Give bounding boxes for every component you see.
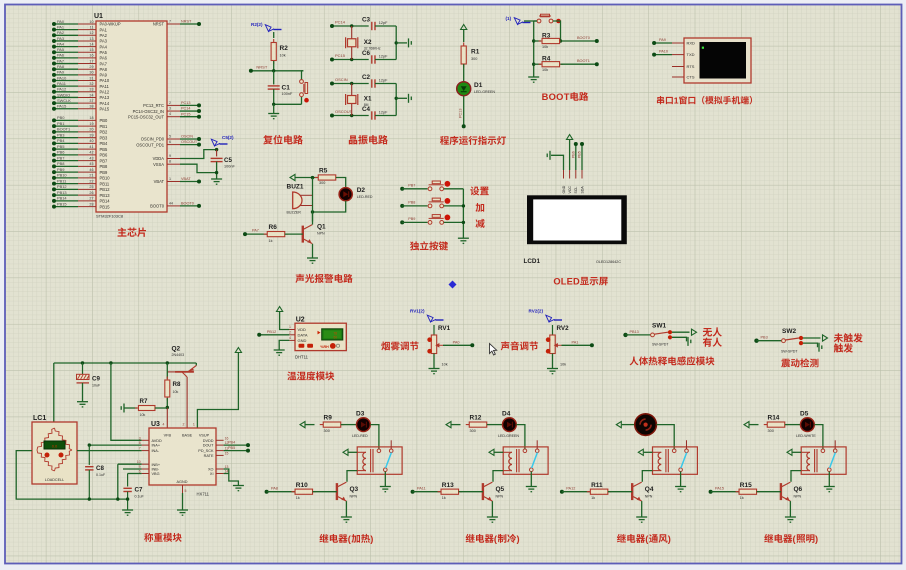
- U1 right pin 1 VBAT: [167, 181, 180, 183]
- label shezhi: [470, 186, 479, 195]
- svg-text:12pF: 12pF: [379, 111, 388, 115]
- label SW2 down: [834, 343, 843, 352]
- wire BOOT0 net: [561, 40, 597, 42]
- svg-text:NPN: NPN: [317, 232, 325, 236]
- svg-text:PB8: PB8: [100, 164, 108, 169]
- red cap boot button: [556, 19, 561, 24]
- svg-text:4: 4: [169, 112, 171, 116]
- svg-text:PA5: PA5: [57, 47, 64, 52]
- svg-text:11: 11: [90, 25, 94, 29]
- svg-text:R13: R13: [442, 482, 454, 489]
- svg-text:Q4: Q4: [645, 486, 654, 493]
- svg-text:PA2: PA2: [100, 33, 108, 38]
- svg-text:2: 2: [289, 331, 291, 335]
- svg-text:300: 300: [319, 181, 325, 185]
- resistor R4 10k: [534, 63, 541, 65]
- ground Q3: [341, 517, 352, 522]
- U1 pin 20 BOOT1: [78, 131, 96, 133]
- caption weighing module: [144, 533, 153, 542]
- svg-text:VCC: VCC: [568, 186, 572, 194]
- svg-text:D2: D2: [357, 187, 366, 194]
- svg-text:PB5: PB5: [100, 147, 108, 152]
- svg-text:PA0-WKUP: PA0-WKUP: [100, 22, 121, 27]
- svg-text:VBAT: VBAT: [181, 177, 191, 181]
- resistor R15 1k: [709, 490, 713, 494]
- svg-text:X1: X1: [364, 96, 372, 103]
- svg-text:0.0: 0.0: [52, 443, 58, 448]
- svg-text:SW-SPDT: SW-SPDT: [652, 343, 669, 347]
- svg-text:Q3: Q3: [350, 486, 359, 493]
- svg-text:Q6: Q6: [794, 486, 803, 493]
- svg-text:1k: 1k: [269, 239, 273, 243]
- svg-text:VBAT: VBAT: [154, 179, 165, 184]
- U1 pin 10 PA0: [78, 23, 96, 25]
- svg-text:BOOT0: BOOT0: [150, 204, 165, 209]
- svg-text:PB9: PB9: [57, 167, 64, 172]
- svg-text:NRST: NRST: [153, 22, 165, 27]
- svg-text:PA13: PA13: [100, 95, 110, 100]
- wire Q4 emitter to ground: [641, 501, 643, 517]
- resistor R6 1k: [245, 233, 267, 235]
- svg-text:7: 7: [169, 20, 171, 24]
- svg-text:LED-GREEN: LED-GREEN: [474, 90, 495, 94]
- wire PD_SCK to PB5: [224, 450, 248, 452]
- svg-text:SW-SPDT: SW-SPDT: [781, 350, 798, 354]
- wire SW1 lower contact: [672, 337, 687, 341]
- svg-text:4: 4: [163, 423, 165, 427]
- svg-text:100nF: 100nF: [282, 92, 293, 96]
- svg-text:44: 44: [169, 201, 173, 205]
- svg-text:18: 18: [89, 116, 93, 120]
- wire arrow to R12: [452, 424, 461, 426]
- svg-text:RV1: RV1: [438, 325, 451, 332]
- caption serial window: [657, 96, 664, 104]
- IC U3 HX711: [149, 428, 216, 485]
- blue flag R2(2): [265, 25, 271, 32]
- svg-text:PA6: PA6: [100, 56, 108, 61]
- svg-text:PB14: PB14: [57, 196, 67, 201]
- U1 pin 14 PA4: [78, 46, 96, 48]
- caption independent keys: [410, 241, 419, 250]
- wire relay common to ground: [828, 472, 830, 487]
- wire D3 to relay: [370, 425, 379, 449]
- svg-text:PB1: PB1: [57, 121, 64, 126]
- wire OSCIN row: [332, 83, 369, 85]
- transistor Q6 NPN: [780, 483, 782, 500]
- wire relay common to ground: [530, 472, 532, 487]
- svg-text:34: 34: [89, 93, 93, 97]
- svg-text:PA10: PA10: [100, 78, 110, 83]
- wire key PB7 right: [444, 188, 464, 190]
- LC1 red dots: [45, 453, 50, 458]
- svg-text:5: 5: [169, 135, 171, 139]
- svg-text:BOOT0: BOOT0: [577, 36, 590, 40]
- transistor Q5 NPN: [482, 483, 484, 500]
- svg-text:PB6: PB6: [571, 151, 575, 158]
- DHT11 red buttons: [299, 344, 305, 348]
- svg-text:PB9: PB9: [100, 170, 108, 175]
- wire arrow to motor: [622, 424, 635, 426]
- caption 人体热释电感应模块: [630, 356, 639, 365]
- wire INA+ row: [89, 444, 141, 446]
- svg-text:300: 300: [470, 429, 476, 433]
- label jian: [476, 219, 485, 228]
- LED D1 green: [463, 64, 465, 82]
- svg-text:U2: U2: [296, 317, 305, 324]
- svg-text:PA4: PA4: [100, 44, 108, 49]
- svg-text:300: 300: [324, 429, 330, 433]
- caption alarm circuit: [295, 274, 304, 283]
- svg-text:1: 1: [193, 423, 195, 427]
- power arrow OLED VCC: [567, 135, 573, 140]
- svg-text:6: 6: [169, 140, 171, 144]
- svg-text:PA11: PA11: [100, 84, 110, 89]
- svg-text:1k: 1k: [740, 496, 744, 500]
- ground RV2: [547, 369, 558, 374]
- resistor R8 10k: [166, 363, 168, 379]
- svg-text:(1): (1): [506, 16, 512, 21]
- wire buzzer vertical: [312, 178, 314, 222]
- svg-text:PB4: PB4: [228, 440, 235, 444]
- svg-text:R14: R14: [768, 415, 780, 422]
- keys right bus: [462, 189, 464, 238]
- transistor Q4 NPN: [631, 483, 633, 500]
- crystal X2: [351, 26, 353, 60]
- capacitor C7 0.1uF: [127, 474, 129, 487]
- svg-text:PB10: PB10: [100, 176, 111, 181]
- svg-text:33: 33: [89, 88, 93, 92]
- svg-text:C6: C6: [362, 50, 371, 57]
- svg-text:22: 22: [89, 179, 93, 183]
- svg-text:15: 15: [89, 48, 93, 52]
- svg-text:PB14: PB14: [100, 199, 111, 204]
- capacitor C6 12pF: [371, 55, 373, 63]
- svg-text:PA11: PA11: [417, 487, 426, 491]
- serial screen: [700, 42, 747, 79]
- svg-text:2N4403: 2N4403: [172, 353, 185, 357]
- U3 bottom pin 5 AGND: [182, 485, 184, 493]
- crystal X1: [351, 84, 353, 116]
- svg-text:PB4: PB4: [57, 138, 65, 143]
- U1 right pin 6 OSCOUT_PD1: [167, 144, 180, 146]
- relay blade: [532, 453, 538, 469]
- svg-text:LED-WHITE: LED-WHITE: [796, 434, 816, 438]
- load cell LC1: [32, 422, 77, 484]
- blue origin marker: [449, 281, 457, 289]
- capacitor C5 100nF: [216, 150, 218, 157]
- svg-text:PA4: PA4: [57, 41, 65, 46]
- wire SW1 input: [623, 333, 627, 337]
- LED D2 red: [339, 188, 352, 201]
- relay 继电器(通风): [653, 447, 698, 474]
- svg-text:PB0: PB0: [100, 118, 108, 123]
- svg-text:1k: 1k: [296, 496, 300, 500]
- svg-text:PB4: PB4: [100, 141, 108, 146]
- svg-text:INA-: INA-: [152, 449, 160, 453]
- svg-text:10k: 10k: [542, 68, 548, 72]
- svg-text:PB15: PB15: [57, 201, 67, 206]
- svg-text:10: 10: [89, 20, 93, 24]
- svg-text:PC13_RTC: PC13_RTC: [143, 103, 164, 108]
- svg-text:): ): [370, 534, 373, 544]
- power arrow relay coil: [343, 449, 348, 455]
- power arrow 继电器(通风): [616, 422, 621, 428]
- wire OLED SCL to PB6: [575, 145, 577, 170]
- ground Q4: [636, 517, 647, 522]
- svg-text:VBG: VBG: [152, 472, 160, 476]
- U1 pin 37 SWCLK: [78, 102, 96, 104]
- svg-text:R12: R12: [470, 415, 482, 422]
- relay contact pins: [377, 449, 381, 453]
- resistor R3 10k: [534, 40, 541, 42]
- caption 声音调节: [501, 341, 510, 350]
- power arrow 继电器(加热): [300, 422, 305, 428]
- svg-text:21: 21: [89, 174, 93, 178]
- ground keys: [458, 238, 469, 243]
- serial window frame: [684, 38, 751, 83]
- svg-text:NPN: NPN: [794, 494, 802, 498]
- label SW2 up: [834, 333, 843, 342]
- svg-text:C5(2): C5(2): [222, 135, 234, 140]
- svg-text:LOADCELL: LOADCELL: [45, 478, 64, 482]
- svg-text:PA15: PA15: [57, 104, 66, 109]
- IC U1 STM32F103C8 main chip body: [96, 21, 167, 212]
- wire Q2 collector to U3 pin2: [186, 377, 188, 428]
- ground C7: [122, 510, 133, 515]
- wire OLED GND to bar: [551, 155, 564, 170]
- svg-text:LED-RED: LED-RED: [352, 434, 368, 438]
- svg-text:C5: C5: [224, 157, 232, 164]
- caption 震动检测: [781, 359, 790, 368]
- ground reset: [273, 104, 275, 113]
- capacitor C3 12pF: [371, 22, 373, 30]
- svg-text:Q2: Q2: [172, 346, 181, 353]
- svg-text:16: 16: [89, 54, 93, 58]
- U3 right pin 14 XI: [216, 473, 224, 475]
- svg-text:12: 12: [89, 31, 93, 35]
- ground alarm: [307, 258, 318, 263]
- U3 left pin 3 AVDD: [142, 439, 149, 441]
- svg-text:PA7: PA7: [100, 61, 108, 66]
- svg-text:PA1: PA1: [57, 24, 64, 29]
- U1 pin 42 PB6: [78, 154, 96, 156]
- U1 pin 40 PB4: [78, 142, 96, 144]
- wire OSCOUT row: [332, 115, 369, 117]
- wire R5 to D2: [336, 178, 346, 188]
- wire RV2 to ground: [552, 354, 554, 369]
- caption zhuxinpian: [118, 227, 127, 236]
- capacitor C1 100nF: [273, 71, 275, 85]
- wire INB- row: [123, 468, 142, 470]
- U3 left pin 10 INB+: [142, 463, 149, 465]
- svg-text:SWCLK: SWCLK: [57, 98, 71, 103]
- svg-text:PA15: PA15: [715, 487, 724, 491]
- svg-text:PB8: PB8: [408, 201, 415, 205]
- svg-text:28: 28: [89, 202, 93, 206]
- serial pin RXD: [672, 42, 684, 44]
- svg-text:0.1uF: 0.1uF: [135, 494, 145, 498]
- resistor R11 1k: [560, 490, 564, 494]
- wire relay common to ground: [384, 472, 386, 487]
- power arrow D1: [461, 25, 467, 30]
- U3 right pin 16 DVDD: [216, 439, 224, 441]
- svg-text:): ): [516, 534, 519, 544]
- svg-text:1: 1: [169, 177, 171, 181]
- potentiometer RV1 10k: [433, 325, 435, 335]
- svg-text:R3: R3: [542, 33, 551, 40]
- svg-text:10k: 10k: [280, 54, 286, 58]
- U1 pin 15 PA5: [78, 51, 96, 53]
- label jia: [475, 203, 484, 212]
- svg-text:BOOT: BOOT: [542, 92, 570, 102]
- DHT11 green display: [322, 329, 343, 340]
- wire DOUT to PB4: [224, 444, 248, 446]
- power arrow relay coil: [489, 449, 494, 455]
- svg-text:CTS: CTS: [687, 75, 695, 80]
- svg-text:OSCIN_PD0: OSCIN_PD0: [141, 137, 165, 142]
- U1 pin 45 PB8: [78, 165, 96, 167]
- U1 pin 27 PB14: [78, 200, 96, 202]
- U1 pin 39 PB3: [78, 137, 96, 139]
- resistor R10 1k: [265, 490, 269, 494]
- svg-text:NPN: NPN: [496, 494, 504, 498]
- svg-text:): ): [815, 534, 818, 544]
- caption 继电器(照明): [764, 534, 773, 543]
- U1 right pin 44 BOOT0: [167, 205, 180, 207]
- svg-text:PA7: PA7: [252, 229, 259, 233]
- wire XO XI to ground: [224, 469, 229, 474]
- svg-text:PB6: PB6: [100, 153, 108, 158]
- wire relay common to ground: [680, 472, 682, 487]
- svg-text:OLED: OLED: [553, 277, 580, 287]
- transistor Q3 NPN: [336, 483, 338, 500]
- svg-text:BUZZER: BUZZER: [287, 211, 302, 215]
- wire U2 GND: [279, 340, 289, 350]
- ground relay: [824, 487, 835, 492]
- svg-text:TXD: TXD: [687, 52, 695, 57]
- U1 pin 34 SWDIO: [78, 96, 96, 98]
- svg-text:NPN: NPN: [350, 494, 358, 498]
- wire Q1 emitter to ground: [312, 244, 314, 258]
- svg-text:37: 37: [89, 99, 93, 103]
- wire SW1 upper contact: [672, 331, 690, 333]
- motor fan D?: [635, 414, 657, 436]
- wire boot button to R3: [553, 21, 561, 41]
- svg-text:PB6: PB6: [57, 150, 64, 155]
- svg-text:1: 1: [674, 96, 679, 106]
- svg-text:PB5: PB5: [228, 446, 235, 450]
- U1 pin 21 PB10: [78, 177, 96, 179]
- svg-text:D1: D1: [474, 82, 483, 89]
- svg-text:STM32F103C8: STM32F103C8: [96, 214, 124, 219]
- svg-text:PB3: PB3: [100, 135, 108, 140]
- svg-text:R10: R10: [296, 482, 308, 489]
- svg-text:DOUT: DOUT: [203, 444, 214, 448]
- svg-text:INA+: INA+: [152, 444, 161, 448]
- U1 pin 25 PB12: [78, 188, 96, 190]
- ground C5: [211, 179, 222, 184]
- svg-text:2: 2: [183, 423, 185, 427]
- U3 right pin 13 XO: [216, 468, 224, 470]
- U1 pin 19 PB1: [78, 125, 96, 127]
- svg-text:4: 4: [289, 336, 291, 340]
- svg-text:BOOT1: BOOT1: [57, 127, 70, 132]
- svg-text:BOOT0: BOOT0: [181, 202, 194, 206]
- svg-text:PC15: PC15: [181, 112, 191, 116]
- red cap PB7: [445, 181, 451, 187]
- wire INB+ row: [118, 463, 142, 465]
- ground U3: [177, 510, 188, 515]
- resistor R13 1k: [411, 490, 415, 494]
- U3 right pin 11 PD_SCK: [216, 450, 224, 452]
- power arrow 继电器(制冷): [446, 422, 451, 428]
- svg-text:PA11: PA11: [57, 81, 66, 86]
- push button reset: [302, 71, 304, 80]
- resistor R12 300: [466, 424, 491, 426]
- svg-text:BUZ1: BUZ1: [287, 184, 304, 191]
- U1 right pin 8 VSSA: [167, 163, 180, 165]
- svg-text:XO: XO: [208, 468, 214, 472]
- wire arrow to R14: [750, 424, 759, 426]
- red button cap: [304, 98, 309, 103]
- svg-text:OSCOUT: OSCOUT: [181, 140, 198, 144]
- svg-text:VSUP: VSUP: [199, 434, 210, 438]
- U3 right pin 12 DOUT: [216, 444, 224, 446]
- svg-text:PA10: PA10: [659, 50, 668, 54]
- svg-text:R6: R6: [269, 224, 278, 231]
- wire R8 to U3 pin4: [166, 408, 168, 429]
- transistor Q1 NPN: [302, 226, 304, 243]
- ground relay: [380, 487, 391, 492]
- svg-text:31: 31: [89, 76, 93, 80]
- svg-text:SDA: SDA: [580, 186, 584, 194]
- svg-text:PB12: PB12: [57, 184, 67, 189]
- wire BOOT1 net: [561, 63, 597, 65]
- svg-text:PB12: PB12: [100, 187, 111, 192]
- svg-text:PA9: PA9: [659, 38, 666, 42]
- U1 right pin 9 VDDA: [167, 158, 180, 160]
- svg-text:PB13: PB13: [57, 190, 67, 195]
- svg-text:C1: C1: [282, 85, 291, 92]
- U1 right pin 2 PC13_RTC: [167, 104, 180, 106]
- svg-text:RATE: RATE: [204, 454, 214, 458]
- wire SW2 lower contact: [803, 343, 818, 347]
- svg-text:AGND: AGND: [177, 480, 188, 484]
- svg-text:1k: 1k: [442, 496, 446, 500]
- svg-text:SW2: SW2: [782, 328, 796, 335]
- svg-text:32: 32: [89, 82, 93, 86]
- svg-text:PB15: PB15: [100, 204, 111, 209]
- svg-text:8M: 8M: [364, 103, 369, 107]
- wire boot left vertical: [534, 20, 537, 22]
- svg-text:DHT11: DHT11: [295, 355, 309, 360]
- svg-text:41: 41: [89, 145, 93, 149]
- wire D5 to relay: [814, 425, 823, 449]
- svg-text:PC14-OSC32_IN: PC14-OSC32_IN: [133, 109, 164, 114]
- svg-text:PB7: PB7: [100, 158, 108, 163]
- capacitor C8 0.1uF: [88, 445, 90, 465]
- U1 pin 31 PA10: [78, 80, 96, 82]
- wire D1 to PC13 terminal: [463, 96, 465, 127]
- wire OLED SDA to PB5: [581, 145, 583, 170]
- svg-text:3: 3: [169, 107, 171, 111]
- svg-text:10k: 10k: [173, 390, 179, 394]
- svg-text:15: 15: [225, 451, 229, 455]
- relay contact pins: [523, 449, 527, 453]
- svg-text:PA8: PA8: [100, 67, 108, 72]
- svg-text:PA7: PA7: [57, 58, 64, 63]
- svg-text:INB-: INB-: [152, 468, 160, 472]
